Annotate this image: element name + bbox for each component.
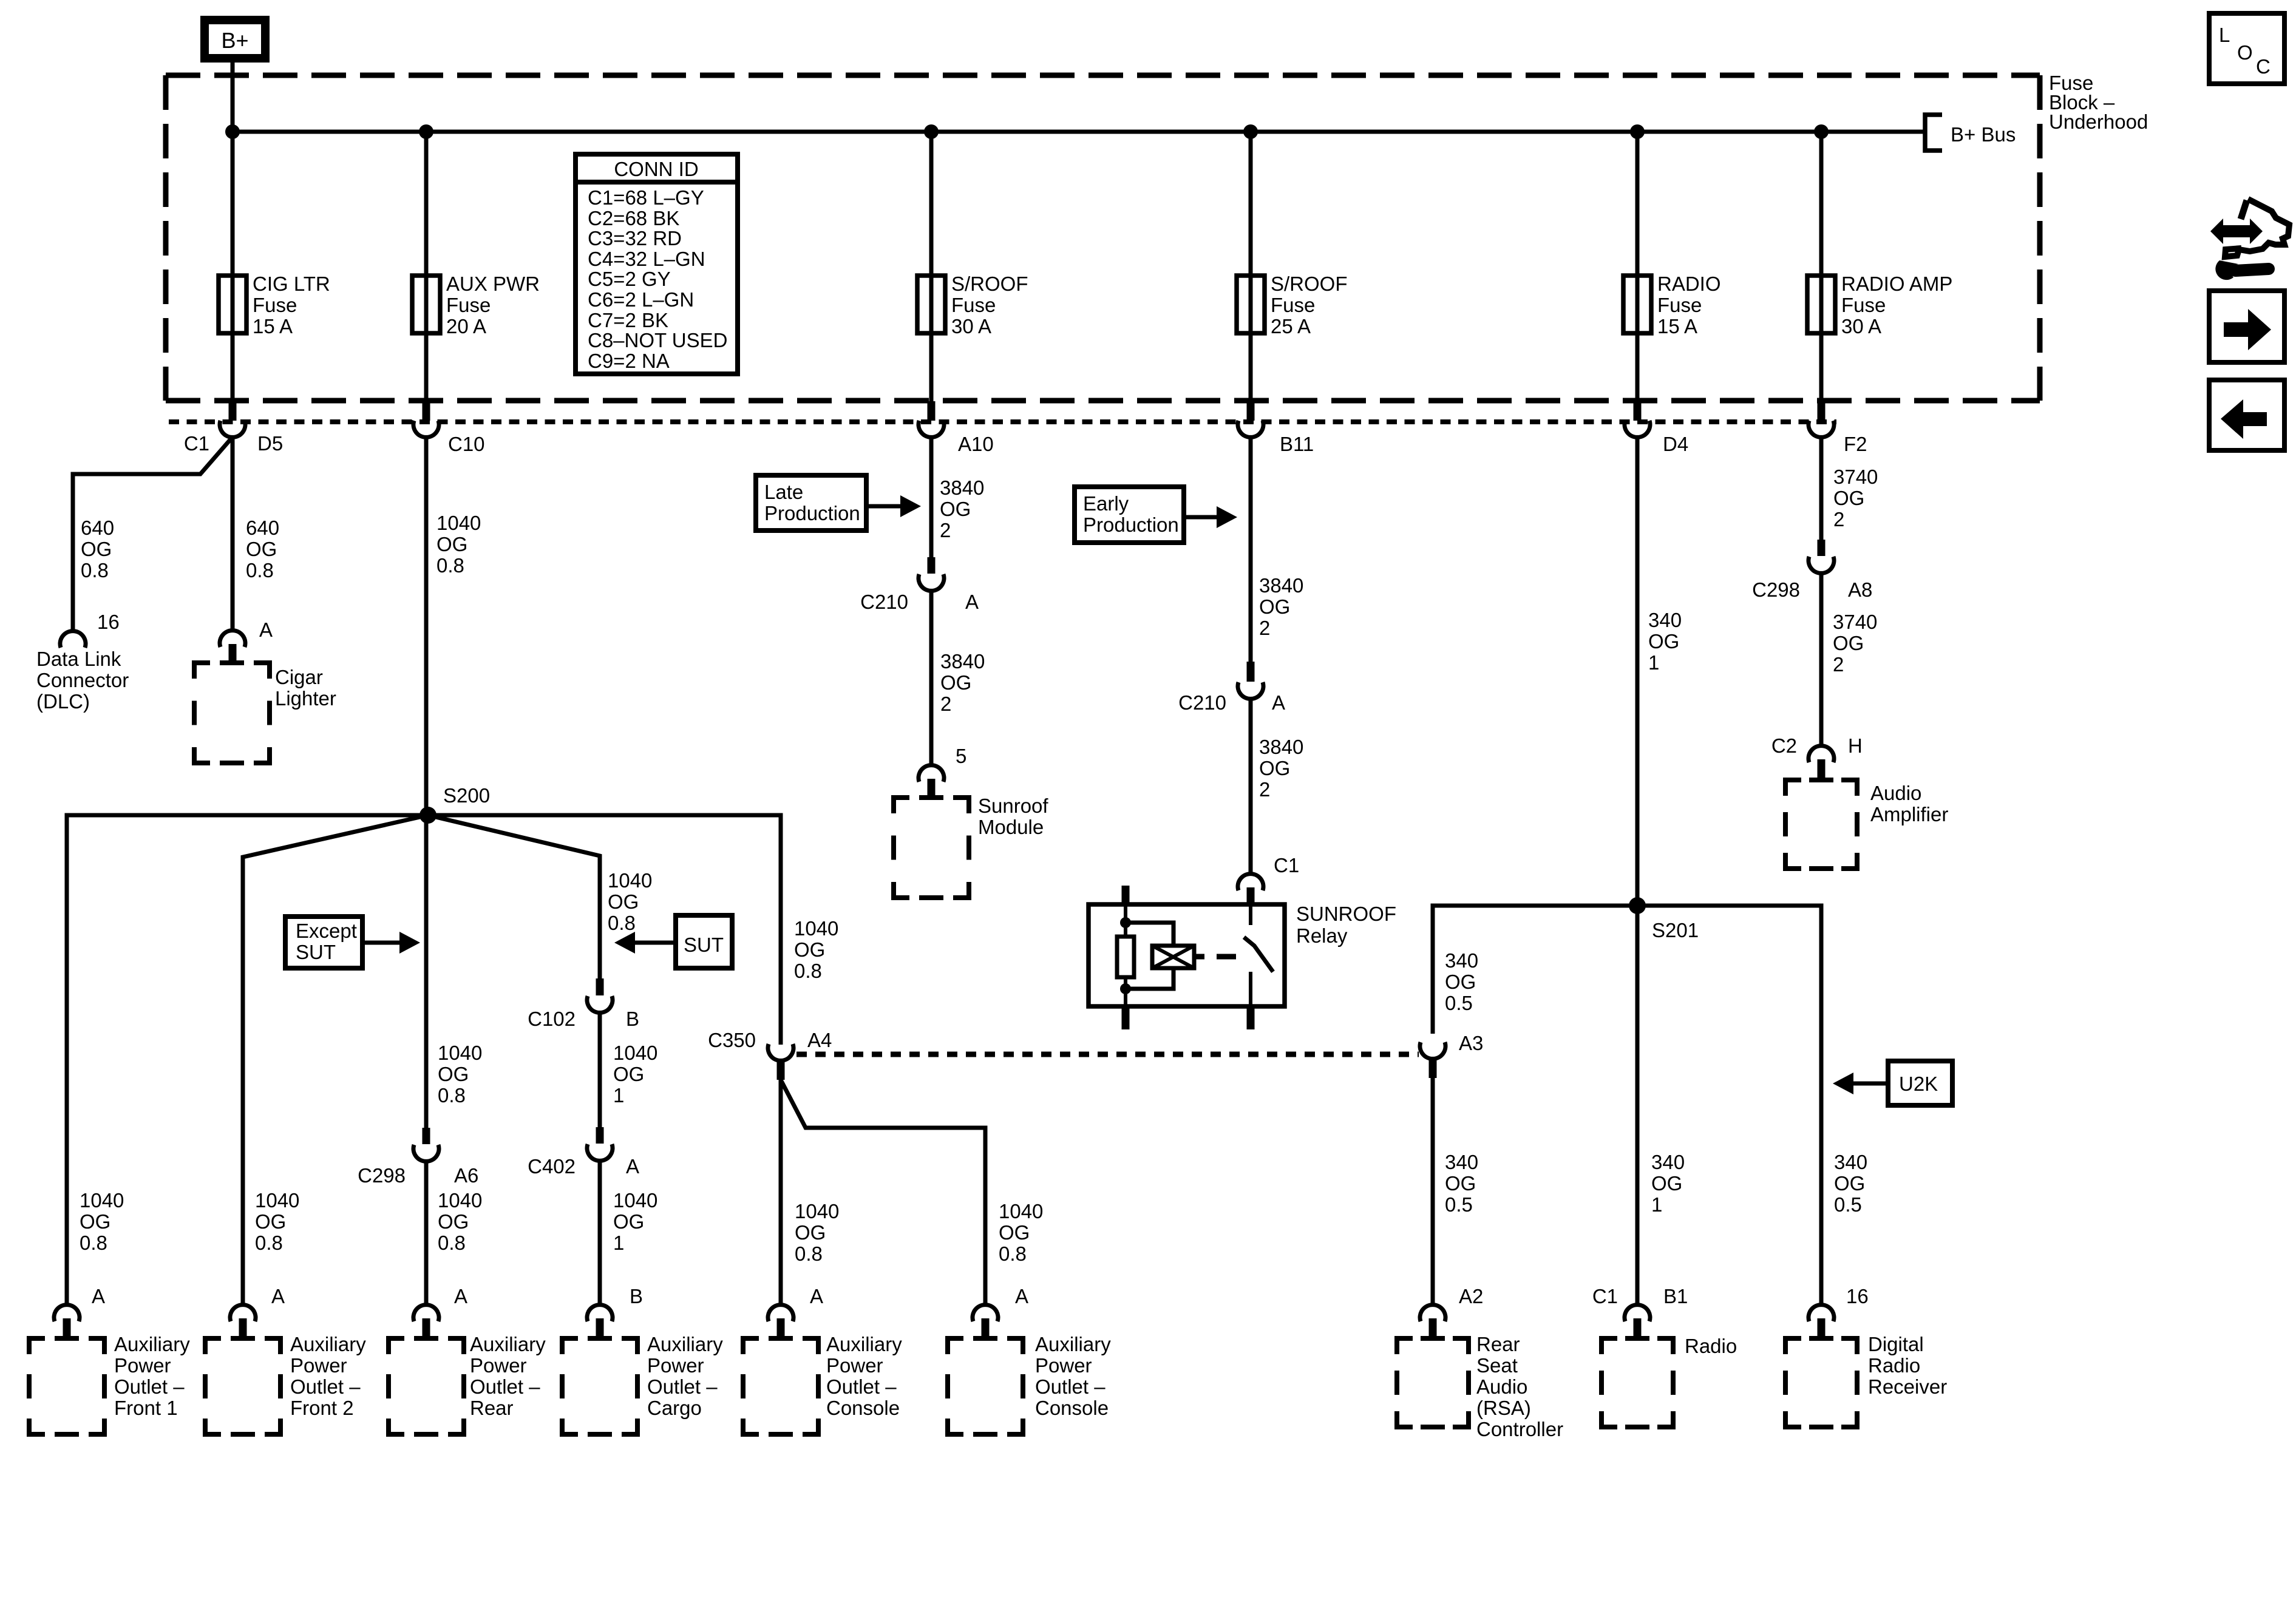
fuse block terminal pin x=1534 xyxy=(928,401,936,421)
component box Radio xyxy=(1601,1336,1617,1341)
stub at C210 (late) xyxy=(928,557,936,574)
svg-text:C9=2 NA: C9=2 NA xyxy=(588,350,670,372)
relay switch contacts xyxy=(1249,906,1252,925)
svg-text:0.8: 0.8 xyxy=(794,960,822,982)
svg-text:OG: OG xyxy=(81,538,112,560)
LOC reference box xyxy=(2209,13,2284,84)
svg-text:Console: Console xyxy=(826,1397,900,1419)
svg-text:Connector: Connector xyxy=(36,669,129,691)
svg-text:Outlet –: Outlet – xyxy=(470,1375,540,1398)
svg-text:0.8: 0.8 xyxy=(80,1232,107,1254)
connector at RSA controller xyxy=(1420,1305,1445,1321)
wire S200 right branch to C350 xyxy=(428,815,781,1045)
svg-text:OG: OG xyxy=(795,1221,826,1244)
forward arrow box xyxy=(2209,291,2284,362)
svg-text:C210: C210 xyxy=(860,591,908,613)
arrow SUT xyxy=(631,941,676,945)
relay SUNROOF Relay box xyxy=(1089,904,1285,1006)
svg-text:OG: OG xyxy=(438,1063,469,1085)
svg-text:1040: 1040 xyxy=(613,1042,657,1064)
cigar lighter pin stub xyxy=(229,644,237,663)
audio amp pin stub xyxy=(1818,759,1826,780)
svg-text:Auxiliary: Auxiliary xyxy=(114,1333,190,1355)
svg-text:Console: Console xyxy=(1035,1397,1109,1419)
wire bus to connector x=1534 xyxy=(929,132,934,401)
sunroof module pin stub xyxy=(928,779,936,798)
connector at Cargo outlet xyxy=(587,1305,613,1321)
junction on B+ bus x=2697 xyxy=(1630,124,1645,139)
svg-text:Front 1: Front 1 xyxy=(114,1397,178,1419)
svg-text:0.8: 0.8 xyxy=(438,1084,466,1107)
svg-text:Audio: Audio xyxy=(1476,1375,1527,1398)
front1 pin stub xyxy=(63,1318,71,1338)
connector C2 at Audio Amplifier xyxy=(1809,746,1834,762)
wire S200 branch to C102 (SUT) xyxy=(428,815,600,978)
svg-text:5: 5 xyxy=(956,745,966,767)
svg-text:C210: C210 xyxy=(1178,691,1226,714)
wire C102 to C402 xyxy=(598,1013,602,1127)
svg-text:S/ROOF: S/ROOF xyxy=(951,273,1028,295)
svg-text:30 A: 30 A xyxy=(1841,315,1881,337)
svg-text:SUNROOF: SUNROOF xyxy=(1296,903,1396,925)
svg-text:2: 2 xyxy=(940,693,951,715)
svg-text:640: 640 xyxy=(246,517,279,539)
component box Auxiliary Power Outlet Front 1 xyxy=(29,1336,45,1341)
svg-text:A2: A2 xyxy=(1459,1285,1483,1307)
connector C210 cavity A (early) xyxy=(1238,682,1263,699)
svg-text:Module: Module xyxy=(978,816,1044,838)
svg-text:0.8: 0.8 xyxy=(81,559,109,581)
rear pin stub xyxy=(423,1318,430,1338)
svg-text:SUT: SUT xyxy=(296,941,336,963)
svg-text:O: O xyxy=(2237,41,2253,64)
fuse CIG LTR 15 A xyxy=(219,276,246,333)
Early Production callout xyxy=(1075,487,1184,543)
B+ Bus end bracket xyxy=(1925,115,1942,151)
svg-text:1040: 1040 xyxy=(794,917,838,940)
svg-text:OG: OG xyxy=(1445,1172,1476,1195)
wire bus to connector x=383 xyxy=(231,132,235,401)
svg-text:0.5: 0.5 xyxy=(1834,1193,1862,1216)
connector at Data Link Connector xyxy=(60,631,86,648)
wire C350 to Console outlet 2 xyxy=(781,1080,985,1304)
svg-text:2: 2 xyxy=(1833,508,1844,531)
svg-text:OG: OG xyxy=(1651,1172,1682,1195)
svg-text:B+ Bus: B+ Bus xyxy=(1951,123,2016,146)
connector cavity x=702 xyxy=(413,421,439,437)
svg-text:C10: C10 xyxy=(448,433,485,455)
svg-text:20 A: 20 A xyxy=(446,315,486,337)
svg-text:RADIO: RADIO xyxy=(1657,273,1721,295)
connector C298 cavity A8 xyxy=(1809,557,1834,573)
svg-text:Power: Power xyxy=(470,1354,527,1377)
svg-text:OG: OG xyxy=(940,671,971,694)
stub at C298 A6 xyxy=(423,1128,430,1144)
svg-text:0.5: 0.5 xyxy=(1445,992,1473,1014)
front2 pin stub xyxy=(239,1318,247,1338)
relay internal junction bottom xyxy=(1120,983,1131,994)
svg-text:1: 1 xyxy=(1648,651,1659,674)
svg-text:340: 340 xyxy=(1651,1151,1685,1173)
svg-text:C1: C1 xyxy=(1274,854,1299,876)
junction on B+ bus x=2060 xyxy=(1243,124,1258,139)
svg-text:0.8: 0.8 xyxy=(999,1242,1027,1265)
wire A10 to C210 xyxy=(929,438,934,557)
connector C402 cavity A xyxy=(587,1144,613,1161)
svg-text:C: C xyxy=(2256,55,2271,78)
svg-text:Production: Production xyxy=(764,502,860,524)
wire S200 branch to Front 2 outlet xyxy=(243,815,428,1304)
svg-text:Early: Early xyxy=(1083,492,1129,515)
wire C1 to Data Link Connector xyxy=(73,437,233,631)
relay coil-side pin stubs xyxy=(1122,886,1130,906)
connector at Console outlet 1 xyxy=(768,1305,793,1321)
svg-text:B11: B11 xyxy=(1280,433,1314,455)
svg-text:CIG LTR: CIG LTR xyxy=(253,273,330,295)
svg-text:Fuse: Fuse xyxy=(951,294,996,316)
relay coil (box with X) xyxy=(1152,946,1194,968)
svg-text:C298: C298 xyxy=(1752,578,1800,601)
svg-text:3840: 3840 xyxy=(1259,736,1303,758)
svg-text:3740: 3740 xyxy=(1833,466,1878,488)
wire bus to connector x=2060 xyxy=(1249,132,1253,401)
svg-text:3740: 3740 xyxy=(1833,611,1877,633)
svg-text:S201: S201 xyxy=(1652,919,1699,941)
connector C298 cavity A6 xyxy=(413,1145,439,1161)
fuse RADIO 15 A xyxy=(1623,276,1651,333)
svg-text:C350: C350 xyxy=(708,1029,756,1051)
wire S200 left branch to Front 1 outlet xyxy=(67,815,428,1304)
svg-text:1: 1 xyxy=(613,1232,624,1254)
svg-text:1: 1 xyxy=(613,1084,624,1107)
svg-text:Power: Power xyxy=(1035,1354,1092,1377)
connector at Console outlet 2 xyxy=(973,1305,998,1321)
svg-text:Audio: Audio xyxy=(1870,782,1921,804)
svg-text:C2: C2 xyxy=(1771,734,1797,757)
console1 pin stub xyxy=(777,1318,785,1338)
relay internal left wire xyxy=(1124,906,1127,938)
svg-text:1040: 1040 xyxy=(436,512,481,534)
connector cavity x=1534 xyxy=(919,421,944,437)
connector at Digital Radio Receiver xyxy=(1809,1305,1834,1321)
svg-text:OG: OG xyxy=(608,890,639,913)
connector cavity A3 xyxy=(1420,1042,1445,1059)
svg-text:AUX PWR: AUX PWR xyxy=(446,273,540,295)
svg-text:A: A xyxy=(1015,1285,1028,1307)
connector C102 cavity B xyxy=(587,996,613,1012)
svg-text:Cargo: Cargo xyxy=(647,1397,702,1419)
component box Auxiliary Power Outlet Front 2 xyxy=(205,1336,221,1341)
stub at C210 (early) xyxy=(1247,662,1255,682)
SUT callout xyxy=(676,915,732,968)
svg-text:Power: Power xyxy=(826,1354,883,1377)
component box Cigar Lighter xyxy=(194,660,210,665)
svg-text:340: 340 xyxy=(1445,1151,1478,1173)
connector at Rear outlet xyxy=(413,1305,439,1321)
component box Digital Radio Receiver xyxy=(1785,1336,1801,1341)
svg-text:1040: 1040 xyxy=(255,1189,299,1212)
connector at Sunroof Module xyxy=(919,765,944,782)
relay internal junction top xyxy=(1120,917,1131,928)
svg-text:25 A: 25 A xyxy=(1271,315,1311,337)
svg-text:C1=68 L–GY: C1=68 L–GY xyxy=(588,186,704,209)
fuse RADIO AMP 30 A xyxy=(1807,276,1835,333)
svg-text:1040: 1040 xyxy=(999,1200,1043,1222)
wire C402 to Cargo outlet xyxy=(598,1161,602,1304)
svg-text:0.5: 0.5 xyxy=(1445,1193,1473,1216)
svg-text:A: A xyxy=(1272,691,1285,714)
svg-text:A10: A10 xyxy=(958,433,994,455)
component box Sunroof Module xyxy=(894,795,909,800)
svg-text:A: A xyxy=(92,1285,105,1307)
svg-text:OG: OG xyxy=(613,1063,644,1085)
fuse block underhood dashed box xyxy=(166,73,2040,78)
svg-text:Outlet –: Outlet – xyxy=(647,1375,718,1398)
fuse S/ROOF 30 A xyxy=(917,276,945,333)
svg-text:CONN ID: CONN ID xyxy=(614,158,698,180)
Late Production callout xyxy=(756,475,866,531)
back arrow box xyxy=(2209,380,2284,450)
svg-text:RADIO AMP: RADIO AMP xyxy=(1841,273,1952,295)
component box Audio Amplifier xyxy=(1785,778,1801,782)
svg-text:Power: Power xyxy=(647,1354,704,1377)
svg-text:Production: Production xyxy=(1083,514,1179,536)
svg-text:D4: D4 xyxy=(1663,433,1688,455)
svg-text:0.8: 0.8 xyxy=(608,912,636,934)
svg-text:0.8: 0.8 xyxy=(438,1232,466,1254)
wire C350 to Console outlet 1 xyxy=(779,1080,783,1304)
svg-text:1040: 1040 xyxy=(608,869,652,892)
wire B11 to C210 xyxy=(1249,438,1253,662)
CONN ID table xyxy=(576,154,738,374)
wire C210 to Sunroof Relay xyxy=(1249,699,1253,873)
svg-text:B1: B1 xyxy=(1663,1285,1688,1307)
svg-text:2: 2 xyxy=(1833,653,1844,676)
svg-text:A4: A4 xyxy=(807,1029,832,1051)
svg-text:1040: 1040 xyxy=(438,1189,482,1212)
svg-text:2: 2 xyxy=(940,519,951,541)
svg-text:340: 340 xyxy=(1834,1151,1867,1173)
svg-text:OG: OG xyxy=(1833,632,1864,654)
wire S200 down to C298 A6 and Rear outlet xyxy=(424,815,429,1128)
junction on B+ bus x=702 xyxy=(419,124,433,139)
svg-text:0.8: 0.8 xyxy=(246,559,274,581)
connector cavity x=3000 xyxy=(1809,421,1834,437)
svg-text:B: B xyxy=(626,1008,639,1030)
svg-text:C7=2 BK: C7=2 BK xyxy=(588,309,668,331)
Except SUT callout xyxy=(285,917,362,968)
svg-text:C402: C402 xyxy=(528,1155,576,1178)
svg-text:OG: OG xyxy=(794,938,825,961)
svg-text:A8: A8 xyxy=(1848,578,1872,601)
wire C10 to S200 xyxy=(424,438,429,815)
arrow U2K xyxy=(1850,1082,1888,1086)
svg-text:3840: 3840 xyxy=(940,476,984,499)
svg-text:OG: OG xyxy=(1648,630,1679,653)
svg-text:OG: OG xyxy=(940,498,971,520)
connector cavity x=2697 xyxy=(1625,421,1650,437)
component box Auxiliary Power Outlet Console 1 xyxy=(743,1336,759,1341)
connector at Radio xyxy=(1625,1305,1650,1321)
svg-text:C6=2 L–GN: C6=2 L–GN xyxy=(588,288,694,311)
stub below C350 xyxy=(777,1061,785,1080)
svg-text:OG: OG xyxy=(1259,595,1290,618)
component box Auxiliary Power Outlet Console 2 xyxy=(948,1336,963,1341)
relay resistor xyxy=(1117,937,1134,977)
svg-text:A: A xyxy=(454,1285,467,1307)
svg-text:A3: A3 xyxy=(1459,1032,1483,1054)
arrow Except SUT xyxy=(362,941,403,945)
svg-text:Relay: Relay xyxy=(1296,924,1348,947)
fuse block terminal pin x=702 xyxy=(423,401,430,421)
arrow Late Production xyxy=(866,504,904,509)
svg-text:B: B xyxy=(630,1285,643,1307)
svg-text:Lighter: Lighter xyxy=(275,687,336,710)
wire S201 to RSA controller xyxy=(1433,906,1637,1034)
svg-text:0.8: 0.8 xyxy=(436,554,464,577)
svg-text:OG: OG xyxy=(1445,971,1476,993)
wire bus to connector x=702 xyxy=(424,132,429,401)
svg-text:Rear: Rear xyxy=(1476,1333,1520,1355)
svg-text:Data Link: Data Link xyxy=(36,648,121,670)
relay pin 86 stub xyxy=(1247,887,1255,906)
svg-text:C1: C1 xyxy=(1592,1285,1618,1307)
svg-text:C298: C298 xyxy=(358,1164,406,1187)
svg-text:Auxiliary: Auxiliary xyxy=(1035,1333,1111,1355)
svg-text:Rear: Rear xyxy=(470,1397,514,1419)
svg-text:OG: OG xyxy=(999,1221,1030,1244)
svg-text:Outlet –: Outlet – xyxy=(114,1375,185,1398)
svg-text:Front 2: Front 2 xyxy=(290,1397,354,1419)
connector C350 cavity A4 xyxy=(768,1044,793,1060)
fuse block terminal pin x=383 xyxy=(229,401,237,421)
junction on B+ bus x=1534 xyxy=(924,124,939,139)
svg-text:Receiver: Receiver xyxy=(1868,1375,1947,1398)
svg-text:Radio: Radio xyxy=(1868,1354,1920,1377)
svg-text:(DLC): (DLC) xyxy=(36,690,90,713)
wire bus to connector x=3000 xyxy=(1819,132,1824,401)
console2 pin stub xyxy=(982,1318,990,1338)
svg-text:B+: B+ xyxy=(221,28,248,53)
wire C298 to C2 xyxy=(1819,574,1824,745)
connector cavity x=2060 xyxy=(1238,421,1263,437)
connector at Cigar Lighter xyxy=(220,631,245,647)
svg-text:C2=68 BK: C2=68 BK xyxy=(588,207,679,229)
svg-text:OG: OG xyxy=(1833,487,1864,509)
connector C210 cavity A (late) xyxy=(919,574,944,591)
connector C1 at Sunroof Relay xyxy=(1238,874,1263,890)
svg-text:Power: Power xyxy=(290,1354,347,1377)
wire D4 to Radio through S201 xyxy=(1635,438,1640,1304)
svg-text:A: A xyxy=(626,1155,639,1178)
svg-text:Cigar: Cigar xyxy=(275,666,323,688)
connector at Front 2 outlet xyxy=(230,1305,256,1321)
svg-text:1040: 1040 xyxy=(80,1189,124,1212)
svg-text:0.8: 0.8 xyxy=(255,1232,283,1254)
svg-text:Amplifier: Amplifier xyxy=(1870,803,1948,825)
svg-text:1040: 1040 xyxy=(795,1200,839,1222)
svg-text:OG: OG xyxy=(255,1210,286,1233)
stub at C402 xyxy=(596,1127,604,1144)
svg-text:Digital: Digital xyxy=(1868,1333,1924,1355)
svg-text:Outlet –: Outlet – xyxy=(1035,1375,1106,1398)
svg-text:D5: D5 xyxy=(257,432,283,455)
svg-text:16: 16 xyxy=(97,611,120,633)
svg-text:Fuse: Fuse xyxy=(253,294,297,316)
svg-text:S200: S200 xyxy=(443,784,490,807)
wire C210 to Sunroof Module xyxy=(929,591,934,764)
svg-text:A6: A6 xyxy=(454,1164,478,1187)
relay coil branch wiring xyxy=(1126,923,1173,989)
svg-text:OG: OG xyxy=(438,1210,469,1233)
svg-text:Fuse: Fuse xyxy=(1841,294,1886,316)
svg-text:Fuse: Fuse xyxy=(446,294,491,316)
svg-text:C3=32 RD: C3=32 RD xyxy=(588,227,682,249)
svg-text:C4=32 L–GN: C4=32 L–GN xyxy=(588,248,705,270)
svg-text:340: 340 xyxy=(1445,949,1478,972)
junction on B+ bus x=383 xyxy=(225,124,240,139)
component box Rear Seat Audio Controller xyxy=(1397,1336,1413,1341)
fuse block connector dotted line xyxy=(169,419,1836,424)
U2K callout xyxy=(1888,1061,1952,1105)
junction on B+ bus x=3000 xyxy=(1814,124,1829,139)
svg-text:Auxiliary: Auxiliary xyxy=(470,1333,546,1355)
svg-text:Outlet –: Outlet – xyxy=(826,1375,897,1398)
svg-text:C1: C1 xyxy=(184,432,209,455)
svg-text:Underhood: Underhood xyxy=(2049,110,2148,133)
svg-text:Late: Late xyxy=(764,481,803,503)
cargo pin stub xyxy=(596,1318,604,1338)
svg-text:30 A: 30 A xyxy=(951,315,991,337)
svg-text:A: A xyxy=(259,619,273,641)
arrow Early Production xyxy=(1184,515,1220,520)
svg-text:Fuse: Fuse xyxy=(1657,294,1702,316)
svg-text:A: A xyxy=(271,1285,285,1307)
svg-text:3840: 3840 xyxy=(940,650,985,673)
svg-text:3840: 3840 xyxy=(1259,574,1303,597)
svg-text:Outlet –: Outlet – xyxy=(290,1375,361,1398)
vehicle/wrench icon xyxy=(2210,219,2263,244)
svg-text:Auxiliary: Auxiliary xyxy=(290,1333,366,1355)
svg-text:Seat: Seat xyxy=(1476,1354,1518,1377)
splice S200 xyxy=(419,807,436,824)
svg-text:Power: Power xyxy=(114,1354,171,1377)
svg-text:Radio: Radio xyxy=(1685,1335,1737,1357)
svg-text:2: 2 xyxy=(1259,778,1270,801)
dashed wire C350 to A3 xyxy=(796,1052,1419,1057)
B+ power terminal xyxy=(205,20,265,58)
fuse block terminal pin x=2697 xyxy=(1634,401,1642,421)
svg-text:(RSA): (RSA) xyxy=(1476,1397,1531,1419)
svg-text:H: H xyxy=(1848,734,1863,757)
stub below A3 xyxy=(1429,1059,1437,1078)
svg-text:1040: 1040 xyxy=(613,1189,657,1212)
wire S201 to Digital Radio Receiver xyxy=(1637,906,1821,1304)
wire B+ feed xyxy=(231,63,235,132)
component box Auxiliary Power Outlet Rear xyxy=(389,1336,404,1341)
svg-text:OG: OG xyxy=(80,1210,110,1233)
connector at Front 1 outlet xyxy=(54,1305,80,1321)
svg-text:2: 2 xyxy=(1259,617,1270,639)
svg-text:15 A: 15 A xyxy=(253,315,293,337)
svg-text:OG: OG xyxy=(436,533,467,555)
component box Auxiliary Power Outlet Cargo xyxy=(562,1336,578,1341)
svg-text:16: 16 xyxy=(1846,1285,1869,1307)
RSA pin stub xyxy=(1429,1318,1437,1338)
wire D5 to Cigar Lighter xyxy=(231,438,235,629)
svg-text:15 A: 15 A xyxy=(1657,315,1697,337)
fuse S/ROOF 25 A xyxy=(1237,276,1265,333)
